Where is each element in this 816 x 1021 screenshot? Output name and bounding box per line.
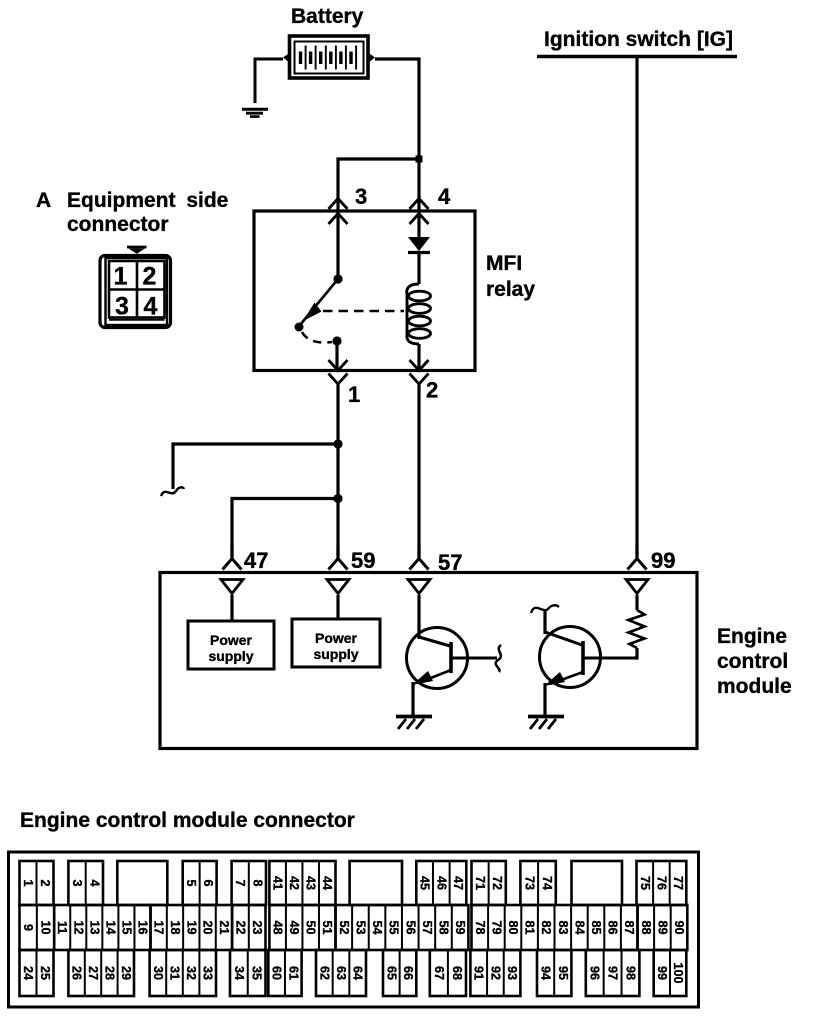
switch closed contact node [332, 336, 341, 345]
ECM pin 59 connector [329, 559, 348, 570]
svg-text:78: 78 [473, 920, 487, 934]
svg-text:64: 64 [351, 966, 365, 980]
svg-text:26: 26 [70, 966, 84, 980]
connector A body [100, 256, 171, 328]
svg-text:Battery: Battery [291, 5, 364, 28]
svg-text:48: 48 [271, 920, 285, 934]
svg-text:96: 96 [588, 966, 602, 980]
ECM connector cavities 22-23 [232, 905, 265, 950]
junction node upper [333, 439, 342, 448]
wire relay pin 1 to ECM pin 59 [336, 384, 339, 556]
ECM pin 57 connector [410, 559, 429, 570]
ECM connector cavities 62-64 [316, 950, 366, 996]
svg-text:62: 62 [317, 966, 331, 980]
relay pin 3 connector [329, 199, 348, 210]
Q2 emitter arrow [544, 672, 565, 686]
ECM connector cavities 48-51 [269, 905, 335, 950]
ECM connector cavities 52-59 [336, 905, 469, 950]
svg-text:supply: supply [313, 646, 358, 662]
wire pin 47 to power supply 1 [230, 595, 233, 621]
svg-text:73: 73 [522, 876, 536, 890]
svg-text:33: 33 [201, 966, 215, 980]
switch fixed contact node [333, 274, 342, 283]
ECM connector empty cavity [117, 861, 167, 905]
wire switch to pin 1 [335, 341, 338, 369]
ECM connector cavities 65-66 [383, 950, 416, 996]
wire Q1 emitter to ground [411, 682, 414, 716]
svg-text:43: 43 [304, 876, 318, 890]
svg-text:29: 29 [119, 966, 133, 980]
svg-text:66: 66 [401, 966, 415, 980]
ECM connector cavities 26-29 [68, 950, 134, 996]
ECM connector cavities 1-2 [20, 861, 54, 905]
svg-text:16: 16 [135, 920, 149, 934]
svg-text:80: 80 [506, 920, 520, 934]
ECM connector cavities 11-16 [54, 905, 150, 950]
ECM connector cavities 67-68 [430, 950, 466, 996]
svg-text:1: 1 [21, 879, 35, 886]
svg-text:Ignition switch [IG]: Ignition switch [IG] [544, 28, 733, 51]
svg-text:47: 47 [244, 548, 268, 573]
svg-text:90: 90 [672, 920, 686, 934]
ECM connector cavities 75-77 [637, 861, 687, 905]
svg-text:44: 44 [320, 876, 334, 890]
svg-text:8: 8 [250, 879, 264, 886]
ECM connector cavities 24-25 [20, 950, 54, 996]
wire ignition switch to ECM pin 99 [635, 56, 638, 556]
svg-text:47: 47 [451, 876, 465, 890]
svg-text:11: 11 [55, 921, 69, 934]
svg-text:83: 83 [556, 920, 570, 934]
wire relay internal pin4 to diode [417, 211, 420, 238]
svg-text:55: 55 [387, 920, 401, 934]
svg-text:10: 10 [39, 920, 53, 934]
connector A pin grid [109, 261, 165, 318]
svg-text:25: 25 [38, 966, 52, 980]
svg-text:92: 92 [488, 966, 502, 980]
svg-text:59: 59 [453, 920, 467, 934]
svg-text:46: 46 [434, 876, 448, 890]
svg-text:30: 30 [151, 966, 165, 980]
svg-text:52: 52 [337, 920, 351, 934]
svg-text:control: control [717, 650, 788, 673]
ECM connector cavities 73-74 [520, 861, 555, 905]
svg-text:56: 56 [403, 920, 417, 934]
MFI relay box [254, 211, 475, 371]
wire branch to relay pin 3 [338, 159, 419, 211]
svg-text:1: 1 [348, 382, 360, 407]
svg-text:7: 7 [233, 879, 247, 886]
svg-text:76: 76 [654, 876, 668, 890]
ECM connector cavities 60-61 [268, 950, 301, 996]
wire break symbol [161, 487, 184, 496]
ECM connector cavities 3-4 [68, 861, 103, 905]
ECM connector cavities 45-47 [416, 861, 466, 905]
svg-text:Power: Power [315, 630, 358, 646]
svg-text:4: 4 [438, 184, 451, 209]
resistor R1 [629, 610, 645, 648]
relay coil L1 [407, 284, 431, 344]
relay pin 4 connector [410, 199, 429, 210]
svg-text:65: 65 [384, 966, 398, 980]
ECM connector cavities 91-93 [470, 950, 520, 996]
transistor Q1 [407, 628, 498, 689]
relay pin 1 connector [329, 360, 348, 371]
svg-text:99: 99 [655, 966, 669, 980]
wire break symbol (Q1 base) [496, 645, 501, 672]
ECM connector cavities 99-100 [654, 950, 687, 996]
ECM connector housing [9, 852, 699, 1007]
junction node lower [333, 494, 342, 503]
svg-text:84: 84 [572, 920, 586, 934]
svg-text:6: 6 [201, 879, 215, 886]
svg-text:41: 41 [271, 876, 285, 890]
svg-text:91: 91 [472, 966, 486, 980]
svg-text:51: 51 [320, 920, 334, 934]
ECM connector cavities 88-90 [638, 905, 688, 950]
ECM connector cavities 41-44 [269, 861, 335, 905]
connector A lock tab [127, 246, 147, 249]
svg-text:99: 99 [651, 548, 675, 573]
svg-text:57: 57 [438, 550, 462, 575]
svg-text:18: 18 [168, 920, 182, 934]
svg-text:17: 17 [152, 920, 166, 934]
ECM connector cavities 96-98 [586, 950, 640, 996]
svg-text:88: 88 [639, 920, 653, 934]
svg-text:20: 20 [201, 920, 215, 934]
svg-text:15: 15 [119, 920, 133, 934]
battery B1 [290, 36, 369, 78]
ECM connector cavities 5-6 [183, 861, 217, 905]
svg-text:12: 12 [71, 920, 85, 934]
svg-text:45: 45 [418, 876, 432, 890]
svg-text:3: 3 [70, 879, 84, 886]
battery terminal left [283, 53, 290, 64]
ECM connector cavities 94-95 [537, 950, 571, 996]
ECM connector cavities 34-35 [230, 950, 266, 996]
Engine control module box [160, 573, 697, 749]
switch lever [300, 279, 338, 325]
svg-text:2: 2 [38, 879, 52, 886]
ECM connector empty cavity [572, 861, 623, 905]
ECM connector cavities 9-10 [20, 905, 55, 950]
svg-text:3: 3 [355, 184, 367, 209]
svg-text:Engine: Engine [717, 625, 787, 648]
svg-text:Power: Power [210, 632, 253, 648]
svg-text:71: 71 [473, 876, 487, 890]
ECM connector empty cavity [350, 861, 402, 905]
svg-text:58: 58 [436, 920, 450, 934]
svg-text:75: 75 [638, 876, 652, 890]
svg-text:27: 27 [86, 966, 100, 980]
wire pin 99 to resistor [635, 595, 638, 610]
svg-text:2: 2 [426, 378, 438, 403]
svg-text:4: 4 [87, 879, 101, 886]
svg-text:97: 97 [606, 966, 620, 980]
svg-text:74: 74 [540, 876, 554, 890]
svg-text:23: 23 [250, 920, 264, 934]
wire break symbol (Q2 collector) [531, 605, 559, 613]
svg-text:100: 100 [671, 962, 685, 983]
ground (Q1) [396, 717, 432, 730]
svg-text:34: 34 [232, 966, 246, 980]
wire pin 57 to Q1 collector [417, 595, 420, 639]
svg-text:54: 54 [370, 920, 384, 934]
wire relay pin 2 to ECM pin 57 [417, 384, 420, 556]
wire coil to pin 2 [417, 344, 420, 369]
svg-text:85: 85 [589, 920, 603, 934]
ECM connector cavities 17-21 [151, 905, 233, 950]
ECM pin 47 connector [223, 559, 242, 570]
battery terminal right [368, 53, 375, 64]
wire diode to coil [417, 252, 420, 284]
svg-text:31: 31 [168, 966, 182, 980]
svg-text:49: 49 [287, 920, 301, 934]
svg-text:5: 5 [184, 879, 198, 886]
svg-text:59: 59 [351, 548, 375, 573]
svg-text:67: 67 [432, 966, 446, 980]
transistor Q2 [540, 627, 635, 688]
svg-text:95: 95 [556, 966, 570, 980]
ECM pin 99 connector [628, 559, 647, 570]
svg-text:Equipment side: Equipment side [67, 189, 228, 212]
svg-text:24: 24 [21, 966, 35, 980]
svg-text:22: 22 [233, 920, 247, 934]
svg-text:32: 32 [184, 966, 198, 980]
svg-text:98: 98 [623, 966, 637, 980]
svg-text:93: 93 [505, 966, 519, 980]
svg-text:module: module [717, 675, 792, 698]
wire relay internal pin3 to switch [336, 211, 339, 279]
svg-text:63: 63 [334, 966, 348, 980]
svg-text:82: 82 [539, 920, 553, 934]
svg-text:4: 4 [144, 293, 158, 321]
svg-text:connector: connector [67, 213, 169, 236]
svg-text:61: 61 [286, 966, 300, 980]
connector A inner frame [106, 258, 168, 325]
Q1 emitter arrow [412, 671, 433, 685]
svg-text:MFI: MFI [486, 252, 522, 275]
wire branch to other circuits (upper) [173, 444, 338, 489]
wire branch to ECM pin 47 [232, 499, 338, 557]
junction node (battery feed split) [416, 156, 423, 163]
wire battery positive down to relay pin 4 [375, 59, 419, 211]
svg-text:94: 94 [539, 966, 553, 980]
svg-text:A: A [36, 189, 51, 212]
svg-text:50: 50 [304, 920, 318, 934]
ignition switch bus bar [537, 55, 737, 58]
svg-text:77: 77 [671, 876, 685, 890]
svg-text:35: 35 [250, 966, 264, 980]
ECM connector cavities 30-33 [150, 950, 216, 996]
svg-text:relay: relay [486, 278, 535, 301]
wire Q2 collector [543, 611, 546, 634]
svg-text:87: 87 [622, 920, 636, 934]
wire Q2 emitter to ground [543, 683, 546, 716]
svg-text:72: 72 [490, 876, 504, 890]
svg-text:89: 89 [655, 920, 669, 934]
svg-text:21: 21 [217, 920, 231, 934]
switch pivot node [295, 323, 304, 332]
svg-text:2: 2 [143, 263, 157, 291]
ECM connector cavities 7-8 [232, 861, 266, 905]
svg-text:53: 53 [353, 920, 367, 934]
svg-text:13: 13 [87, 920, 101, 934]
ECM connector cavities 78-87 [472, 905, 638, 950]
switch throw (dashed) [302, 332, 332, 343]
svg-text:14: 14 [103, 920, 117, 934]
svg-text:86: 86 [606, 920, 620, 934]
diode CR1 [408, 237, 430, 251]
svg-text:79: 79 [489, 920, 503, 934]
power supply block 1 [188, 621, 274, 669]
ECM connector cavities 71-72 [472, 861, 506, 905]
svg-text:60: 60 [270, 966, 284, 980]
wire battery negative to ground [255, 59, 283, 103]
svg-text:42: 42 [287, 876, 301, 890]
power supply block 2 [292, 619, 380, 667]
svg-text:57: 57 [420, 920, 434, 934]
svg-text:Engine control module connecto: Engine control module connector [20, 809, 355, 832]
svg-text:68: 68 [450, 966, 464, 980]
svg-text:19: 19 [184, 920, 198, 934]
svg-text:supply: supply [208, 648, 253, 664]
dashed actuation link to coil [323, 310, 404, 313]
wire resistor to Q2 base [634, 648, 637, 658]
ground (battery) [242, 109, 268, 116]
svg-text:3: 3 [115, 293, 129, 321]
wire pin 59 to power supply 2 [336, 595, 339, 619]
svg-text:81: 81 [523, 920, 537, 934]
relay pin 2 connector [410, 360, 429, 371]
svg-text:28: 28 [102, 966, 116, 980]
svg-text:1: 1 [114, 263, 128, 291]
svg-text:9: 9 [21, 924, 35, 931]
ground (Q2) [528, 717, 564, 730]
